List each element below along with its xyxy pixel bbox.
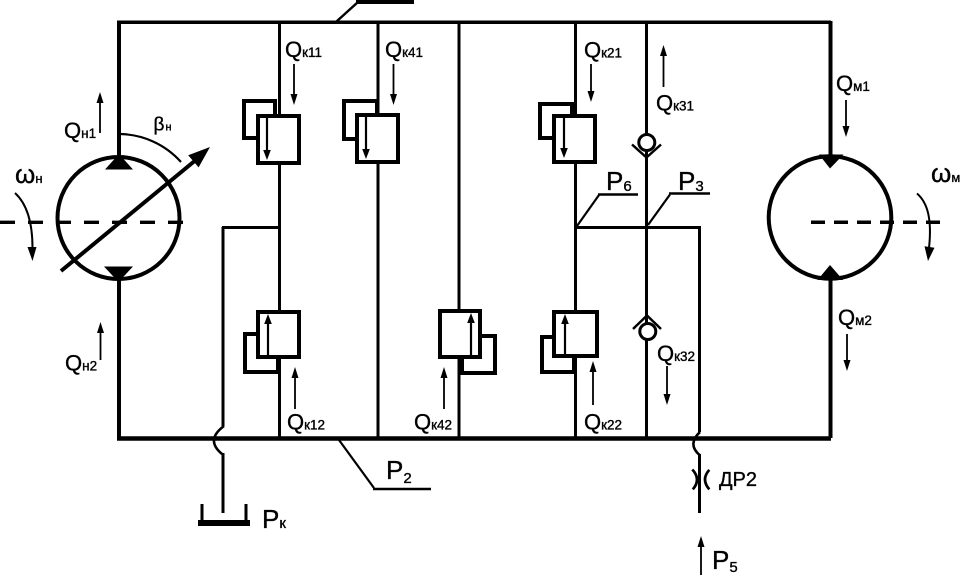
svg-text:ДР2: ДР2 (719, 469, 757, 491)
